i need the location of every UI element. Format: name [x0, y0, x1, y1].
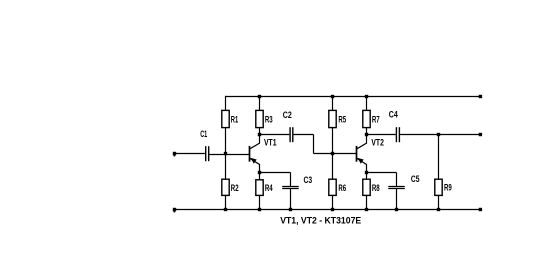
- node top rail / R5: [331, 95, 334, 98]
- wire bottom ground rail: [175, 209, 481, 211]
- resistor R4: [256, 180, 263, 196]
- svg-text:C1: C1: [200, 129, 207, 139]
- svg-text:VT1: VT1: [264, 138, 277, 148]
- wire R3 top stem: [259, 97, 261, 111]
- terminal ground left: [173, 208, 176, 211]
- node VT2 collector: [365, 133, 368, 136]
- terminal top right: [479, 95, 482, 98]
- capacitor C5: [388, 187, 405, 189]
- svg-text:R8: R8: [372, 183, 380, 193]
- node output / R9: [437, 133, 440, 136]
- svg-text:R1: R1: [231, 114, 238, 124]
- node VT1 emitter: [258, 171, 261, 174]
- wire R8 top stem: [366, 173, 368, 181]
- resistor R2: [222, 179, 229, 195]
- wire R7 bottom to collector node: [366, 128, 368, 135]
- wire R1 bottom to input node: [225, 128, 227, 154]
- wire VT2 collector to C4: [367, 134, 396, 136]
- wire R4 bottom stem: [259, 195, 261, 209]
- svg-text:R3: R3: [265, 114, 273, 124]
- node VT2 base divider: [331, 152, 334, 155]
- node ground C5: [395, 208, 398, 211]
- wire R9 top stem: [438, 135, 440, 180]
- wire R6 bottom stem: [332, 195, 334, 209]
- svg-text:R4: R4: [265, 183, 273, 193]
- wire C5 top lead: [396, 173, 398, 187]
- node VT1 base divider: [224, 152, 227, 155]
- resistor R5: [329, 110, 336, 127]
- wire C2 to corner: [293, 134, 313, 136]
- terminal ground right: [479, 208, 482, 211]
- transistor VT2: [357, 135, 367, 173]
- wire VT1 emitter to C3: [260, 172, 291, 174]
- node VT1 collector: [258, 133, 261, 136]
- svg-text:R9: R9: [444, 183, 452, 193]
- node top rail / R3: [258, 95, 261, 98]
- wire R5 top stem: [332, 97, 334, 111]
- capacitor C4: [396, 127, 399, 142]
- wire R4 top stem: [259, 173, 261, 181]
- svg-text:VT1, VT2 - KT3107E: VT1, VT2 - KT3107E: [280, 215, 361, 225]
- wire R5 bottom through node to R6: [332, 128, 334, 180]
- wire interstage to VT2 base: [314, 153, 357, 155]
- node ground R6: [331, 208, 334, 211]
- wire C3 bottom lead: [290, 189, 292, 210]
- wire R9 bottom stem: [438, 195, 440, 209]
- capacitor C2: [290, 127, 293, 142]
- transistor VT1: [250, 135, 260, 173]
- wire corner down: [313, 135, 315, 154]
- resistor R3: [256, 110, 263, 127]
- svg-text:C4: C4: [389, 110, 399, 120]
- wire VT1 collector to C2: [260, 134, 290, 136]
- node ground R2: [224, 208, 227, 211]
- wire R1 top stem: [225, 96, 227, 111]
- resistor R8: [363, 179, 370, 195]
- wire R2 top stem: [225, 154, 227, 180]
- node top rail / R7: [365, 95, 368, 98]
- capacitor C3: [282, 187, 299, 189]
- terminal output right: [479, 133, 482, 136]
- node ground R8: [365, 208, 368, 211]
- wire C5 bottom lead: [396, 189, 398, 210]
- svg-text:R5: R5: [338, 114, 346, 124]
- node ground C3: [289, 208, 292, 211]
- resistor R6: [329, 179, 336, 195]
- wire top supply rail: [225, 96, 480, 98]
- wire R2 bottom stem: [225, 195, 227, 209]
- svg-text:R6: R6: [338, 183, 346, 193]
- wire C4 to output terminal: [400, 134, 481, 136]
- wire C3 top lead: [290, 173, 292, 187]
- node ground R9: [437, 208, 440, 211]
- svg-text:C3: C3: [304, 175, 313, 185]
- svg-text:R2: R2: [231, 183, 239, 193]
- svg-text:C2: C2: [283, 110, 292, 120]
- svg-text:VT2: VT2: [371, 138, 384, 148]
- resistor R7: [363, 110, 370, 127]
- wire VT2 emitter to C5: [367, 172, 397, 174]
- resistor R9: [435, 179, 442, 195]
- wire input lead: [175, 153, 205, 155]
- wire R3 bottom to collector node: [259, 128, 261, 135]
- svg-text:C5: C5: [411, 174, 420, 184]
- capacitor C1: [206, 146, 209, 161]
- node ground R4: [258, 208, 261, 211]
- resistor R1: [222, 110, 229, 127]
- wire R8 bottom stem: [366, 195, 368, 209]
- wire R7 top stem: [366, 97, 368, 111]
- wire C1 to VT1 base: [209, 154, 249, 156]
- node VT2 emitter: [365, 171, 368, 174]
- svg-text:R7: R7: [372, 114, 380, 124]
- terminal input: [173, 152, 176, 155]
